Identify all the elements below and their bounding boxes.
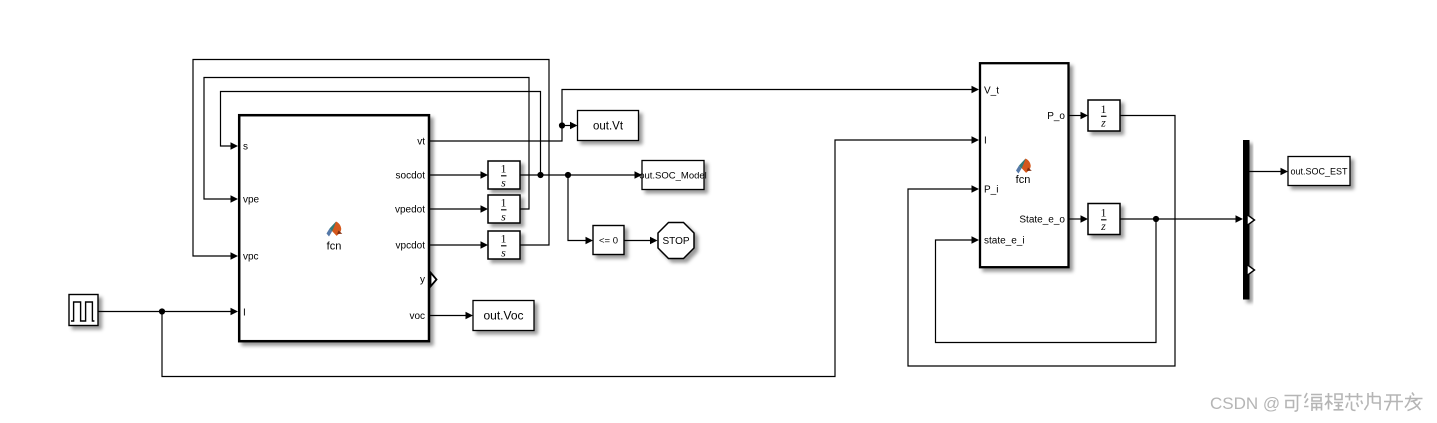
svg-text:<= 0: <= 0 [599,236,618,247]
wire: P_o output to unit delay 1 [1069,112,1088,119]
wire: unit delay 2 output to demux [1120,215,1243,222]
junction: state signal split [1153,216,1159,222]
svg-text:I: I [984,136,987,147]
wire: unit delay 1 feedback loop to P_i input [908,116,1175,367]
unconnected output chevron for port y [431,273,437,287]
MATLAB Function block U2 (SOC estimator) [980,63,1069,267]
svg-text:1: 1 [501,162,507,176]
wire: socdot output to integrator 1 [430,171,488,178]
wire: State_e_o output to unit delay 2 [1069,215,1088,222]
svg-text:STOP: STOP [662,236,689,247]
outport block out.SOC_EST [1288,157,1350,186]
wire: vpedot output to integrator 2 [430,205,488,212]
svg-text:fcn: fcn [327,241,342,253]
wire: current bottom feedback route to estimator I input [162,136,979,376]
watermark chinese glyph xin [1345,393,1363,410]
wire: vt output riser to estimator V_t input [430,86,979,141]
svg-text:out.SOC_EST: out.SOC_EST [1290,167,1348,177]
outport block out.Voc [473,301,534,331]
outport block out.SOC_Model [639,161,707,190]
svg-text:out.Voc: out.Voc [483,309,523,323]
junction: SOC signal at x=568 [565,172,571,178]
svg-text:z: z [1100,219,1106,233]
wire: vpc integrator feedback loop to vpc input [193,60,549,260]
svg-text:voc: voc [409,311,425,322]
compare to zero block <= 0 [593,226,624,255]
svg-text:y: y [420,275,425,286]
svg-text:P_i: P_i [984,185,998,196]
wire: vpcdot output to integrator 3 [430,241,488,248]
wire: demux output 1 to out.SOC_EST [1250,168,1289,175]
MATLAB logo on estimator block [1016,159,1032,174]
svg-text:State_e_o: State_e_o [1019,215,1065,226]
svg-text:vpcdot: vpcdot [396,241,426,252]
wire: branch into out.Vt [562,122,578,129]
svg-text:out.Vt: out.Vt [593,121,624,133]
watermark chinese glyph cheng [1325,393,1344,410]
wire: SOC feedback loop to s input [221,92,541,176]
svg-text:P_o: P_o [1047,111,1065,122]
svg-text:1: 1 [1101,102,1107,116]
integrator block 1/s (vpe) [488,195,520,224]
watermark chinese glyph kai [1384,395,1403,411]
svg-text:s: s [243,142,248,153]
svg-text:s: s [501,176,506,190]
MATLAB Function block U1 (battery model) [239,115,429,341]
svg-text:1: 1 [501,196,507,210]
watermark chinese glyph bian [1304,393,1323,411]
svg-text:V_t: V_t [984,86,999,97]
svg-text:s: s [501,246,506,260]
svg-text:1: 1 [1101,206,1107,220]
svg-text:z: z [1100,116,1106,130]
wire: integrator 1 output to out.SOC_Model [520,171,642,178]
MATLAB logo on battery model block [327,222,343,237]
svg-text:CSDN @: CSDN @ [1210,394,1280,413]
STOP simulation block [658,223,694,259]
outport block out.Vt [578,111,639,141]
wire: SOC branch down to compare block [568,175,593,244]
junction: current signal split [159,308,165,314]
integrator block 1/s (vpc) [488,231,520,260]
svg-text:fcn: fcn [1016,174,1031,186]
watermark chinese glyph ke [1285,396,1302,412]
watermark chinese glyph fa [1405,393,1423,411]
unconnected demux output chevron 3 [1247,265,1255,276]
watermark chinese glyph pian [1365,392,1381,410]
svg-text:s: s [501,210,506,224]
junction: vt branch to out.Vt [559,122,565,128]
svg-text:I: I [243,308,246,319]
unconnected demux output chevron 2 [1247,215,1255,226]
demux block (black bar) [1243,140,1250,300]
wire: pulse output to I input of battery model [98,308,238,315]
wire: vpe integrator feedback loop to vpe input [204,78,529,210]
pulse generator source block [69,295,98,326]
wire: compare output to STOP [624,237,658,244]
svg-text:1: 1 [501,232,507,246]
svg-text:vpe: vpe [243,195,260,206]
svg-text:socdot: socdot [396,171,426,182]
junction: SOC signal at x=540 [537,172,543,178]
wire: state feedback loop to state_e_i input [936,219,1157,343]
integrator block 1/s (SOC) [488,161,520,190]
svg-text:vpedot: vpedot [395,205,425,216]
svg-text:vpc: vpc [243,252,259,263]
svg-text:state_e_i: state_e_i [984,236,1025,247]
svg-text:out.SOC_Model: out.SOC_Model [639,171,707,182]
svg-text:vt: vt [417,137,425,148]
unit delay block 1/z (P) [1088,100,1120,131]
wire: voc output to out.Voc [430,312,473,319]
unit delay block 1/z (state) [1088,204,1120,235]
